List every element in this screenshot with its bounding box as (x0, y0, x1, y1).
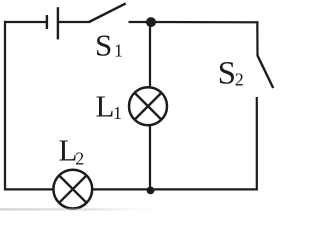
switch S1 lever (open) (89, 3, 126, 22)
lamp L1 cross stroke 2 (135, 93, 162, 120)
lamp L1 circle (129, 87, 167, 125)
scan streak artifact at bottom (0, 208, 165, 210)
wire node A to top-right corner (150, 21, 258, 23)
lamp L2 cross stroke 2 (59, 176, 86, 203)
svg-text:S: S (95, 28, 112, 63)
wire switch S1 to junction node A (129, 21, 151, 23)
junction node A (top) (146, 17, 156, 27)
lamp L2 circle (53, 170, 92, 209)
wire right side upper: corner to switch S2 (256, 21, 258, 56)
wire middle branch lower: lamp L1 to node B (149, 126, 151, 191)
svg-text:1: 1 (113, 103, 122, 123)
svg-text:2: 2 (235, 69, 244, 89)
wire right side lower: switch S2 to bottom-right corner (256, 97, 258, 190)
wire bottom-left: corner to lamp L2 (4, 188, 54, 190)
svg-text:1: 1 (114, 41, 123, 61)
wire battery to switch S1 pivot (59, 21, 90, 23)
wire middle branch upper: node A to lamp L1 (149, 22, 151, 88)
junction node B (bottom) (147, 187, 155, 195)
wire top-left: battery to left corner (4, 21, 46, 23)
svg-text:L: L (96, 88, 115, 123)
svg-text:S: S (218, 56, 236, 92)
wire left side (4, 21, 6, 191)
lamp L2 cross stroke 1 (59, 176, 86, 203)
battery B1 long plate (positive) (57, 7, 59, 39)
lamp L1 cross stroke 1 (135, 93, 162, 120)
switch S2 lever (open) (258, 56, 274, 89)
battery B1 short plate (negative) (46, 15, 48, 29)
wire bottom: lamp L2 to node B to bottom-right corner (92, 188, 258, 190)
svg-text:2: 2 (75, 148, 84, 168)
